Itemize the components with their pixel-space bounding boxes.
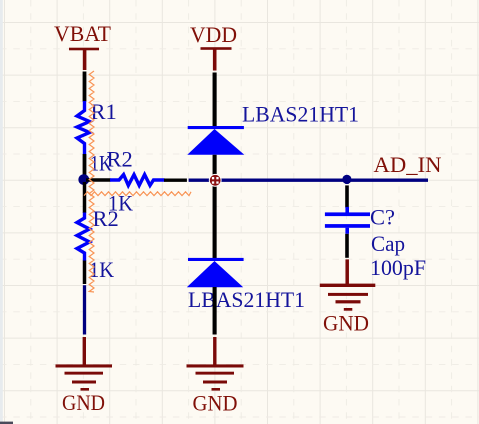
- svg-text:R2: R2: [107, 147, 133, 172]
- diode node junction marker: [209, 174, 222, 187]
- wire VBAT to R1: [83, 72, 87, 102]
- wire D1 to D2: [213, 155, 217, 258]
- svg-text:GND: GND: [323, 311, 369, 336]
- svg-text:VBAT: VBAT: [54, 21, 111, 46]
- wire D2 to GND: [213, 287, 217, 335]
- resistor R2 (horizontal): [107, 147, 165, 216]
- wire node B to C1: [345, 180, 348, 208]
- ground GND (left): [56, 337, 113, 415]
- DRC marker (vertical zigzag): [89, 71, 94, 292]
- resistor R1: [77, 99, 117, 175]
- diode D1 LBAS21HT1 (top): [187, 102, 359, 155]
- ground GND (right): [320, 259, 376, 335]
- wire R2 to GND: [83, 261, 87, 335]
- svg-text:LBAS21HT1: LBAS21HT1: [188, 287, 305, 312]
- power port VDD: [190, 22, 237, 71]
- capacitor C?: [325, 204, 426, 280]
- wire R1 to node A: [83, 154, 87, 178]
- svg-text:C?: C?: [370, 204, 395, 229]
- svg-text:R2: R2: [93, 206, 119, 231]
- svg-text:GND: GND: [193, 391, 238, 416]
- svg-text:VDD: VDD: [190, 22, 237, 47]
- power port VBAT: [54, 21, 111, 70]
- wire diode node to AD_IN: [189, 179, 428, 182]
- DRC marker (horizontal zigzag): [84, 192, 191, 196]
- wire R2 to diode node: [164, 178, 187, 181]
- node A junction dot: [78, 174, 89, 185]
- wire node A to R2: [86, 178, 111, 182]
- wire C1 to GND: [345, 234, 349, 258]
- resistor R2 (lower): [77, 182, 119, 282]
- node B junction dot (cap): [342, 175, 351, 184]
- svg-text:AD_IN: AD_IN: [374, 152, 442, 177]
- diode D2 LBAS21HT1 (bottom): [187, 258, 305, 312]
- wire VDD to D1: [213, 73, 217, 127]
- svg-text:100pF: 100pF: [370, 255, 426, 280]
- svg-text:GND: GND: [62, 390, 105, 415]
- svg-text:LBAS21HT1: LBAS21HT1: [242, 102, 359, 127]
- ground GND (middle): [187, 337, 244, 416]
- svg-text:Cap: Cap: [371, 231, 405, 256]
